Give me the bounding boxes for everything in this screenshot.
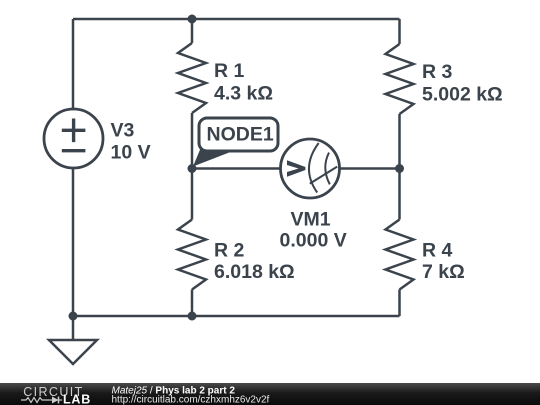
junction node NODE1 (188, 164, 197, 173)
svg-text:6.018 kΩ: 6.018 kΩ (214, 261, 295, 283)
svg-text:4.3 kΩ: 4.3 kΩ (214, 83, 273, 105)
junction right middle (395, 164, 404, 173)
wire bottom rail (73, 315, 400, 318)
svg-text:V3: V3 (111, 119, 135, 141)
wire VM1 right terminal to right rail (341, 167, 400, 170)
logo resistor symbol (21, 398, 49, 403)
resistor R1 (178, 43, 206, 113)
logo diode symbol (49, 399, 62, 401)
voltmeter VM1 (281, 139, 340, 198)
junction bottom middle (188, 312, 197, 321)
wire left vertical lower (V3 bottom to bottom rail) (72, 169, 75, 317)
svg-text:R 1: R 1 (214, 60, 245, 82)
wire right R3-to-junction (398, 114, 401, 169)
wire right lower (R4 to bottom rail) (398, 290, 401, 317)
wire node to VM1 left terminal (192, 167, 280, 170)
svg-text:0.000 V: 0.000 V (280, 230, 347, 252)
wire right junction-to-R4 (398, 169, 401, 220)
svg-text:NODE1: NODE1 (207, 124, 274, 146)
svg-text:LAB: LAB (63, 393, 91, 405)
footer bar (0, 383, 540, 405)
wire top rail (73, 18, 400, 21)
svg-text:R 2: R 2 (214, 239, 245, 261)
resistor R3 (386, 44, 414, 114)
wire left vertical upper (top rail to V3 top) (72, 19, 75, 109)
svg-text:R 3: R 3 (422, 61, 453, 83)
voltage source V3 (44, 109, 103, 168)
ground (49, 316, 97, 364)
svg-text:7 kΩ: 7 kΩ (422, 261, 465, 283)
svg-text:10 V: 10 V (111, 142, 151, 164)
svg-text:R 4: R 4 (422, 239, 453, 261)
resistor R4 (386, 220, 414, 290)
junction bottom left (69, 312, 78, 321)
node label NODE1 bubble (193, 118, 278, 167)
svg-text:VM1: VM1 (291, 209, 331, 231)
svg-text:5.002 kΩ: 5.002 kΩ (422, 84, 503, 106)
resistor R2 (178, 220, 206, 290)
wire right vertical upper (top rail to R3) (398, 19, 401, 44)
wire middle lower (R2 to bottom rail) (191, 290, 194, 317)
wire middle R1-to-node (191, 113, 194, 169)
wire middle node-to-R2 (191, 169, 194, 220)
svg-text:http://circuitlab.com/czhxmhz6: http://circuitlab.com/czhxmhz6v2v2f (112, 395, 270, 405)
wire middle upper (top rail to R1) (191, 19, 194, 43)
junction top middle (188, 15, 197, 24)
